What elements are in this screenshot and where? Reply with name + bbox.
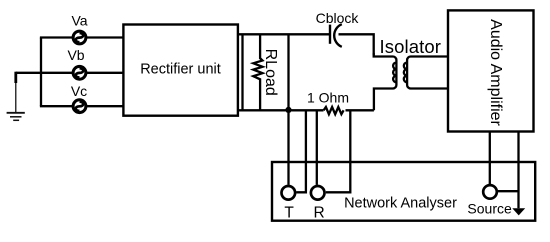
wire R right to rail after 1 Ohm	[326, 110, 351, 192]
wire amp pin to source terminal	[489, 132, 491, 185]
svg-text:Vc: Vc	[71, 83, 87, 99]
resistor RLoad	[253, 34, 279, 110]
wire Va row left	[40, 36, 73, 38]
wire Vc row right	[86, 105, 123, 107]
svg-text:T: T	[284, 205, 294, 222]
AC source Vb	[73, 66, 86, 79]
svg-text:RLoad: RLoad	[262, 49, 279, 96]
wire vertical to terminal T with dot	[287, 34, 289, 185]
rectifier unit U1	[123, 25, 237, 116]
svg-text:Rectifier unit: Rectifier unit	[140, 62, 221, 78]
wire Vb row left	[16, 72, 73, 74]
network analyser box	[272, 162, 535, 221]
wire Vc row left	[40, 105, 73, 107]
wire rail to T right side jog	[296, 110, 306, 192]
wire source terminal to ground wire	[498, 190, 519, 192]
transformer T1 secondary	[404, 57, 448, 89]
wire Va row right	[86, 36, 123, 38]
ground	[7, 113, 25, 121]
terminal R	[311, 186, 325, 200]
audio amplifier U2	[448, 10, 534, 131]
svg-text:Va: Va	[71, 12, 87, 28]
svg-text:Vb: Vb	[67, 47, 84, 63]
wire Vb row right	[86, 72, 123, 74]
svg-text:Source: Source	[467, 200, 512, 216]
AC source Vc	[73, 100, 86, 113]
wire top rail	[238, 33, 330, 35]
wire bottom rail left of 1 Ohm	[238, 109, 324, 111]
ground arrow	[512, 208, 525, 215]
wire vertical right of rectifier	[241, 34, 243, 110]
svg-text:Network Analyser: Network Analyser	[344, 196, 457, 212]
svg-text:R: R	[313, 205, 324, 222]
svg-text:Audio Amplifier: Audio Amplifier	[487, 19, 504, 126]
capacitor Cblock	[330, 24, 342, 47]
transformer T1 primary	[374, 53, 397, 110]
terminal Source	[483, 185, 497, 199]
wire left bus	[40, 38, 42, 107]
terminal T	[282, 186, 296, 200]
wire capacitor to isolator corner	[339, 34, 374, 55]
junction dot	[285, 107, 291, 113]
svg-text:1 Ohm: 1 Ohm	[307, 89, 349, 105]
svg-text:Isolator: Isolator	[380, 36, 441, 57]
resistor 1 Ohm	[307, 89, 349, 114]
AC source Va	[73, 31, 86, 44]
wire ground stub thin	[15, 83, 17, 112]
wire ground stub thick	[14, 72, 17, 83]
wire rail to R top	[316, 110, 318, 185]
svg-text:Cblock: Cblock	[316, 10, 360, 26]
wire amp pin to ground arrow	[517, 132, 519, 209]
wire bottom rail right of 1 Ohm	[346, 109, 374, 111]
